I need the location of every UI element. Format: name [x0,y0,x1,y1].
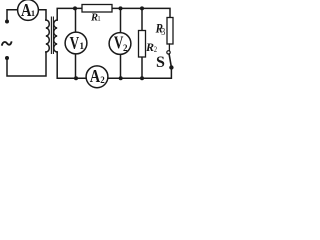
label R2 [145,40,154,54]
voltmeter V2 [109,33,131,55]
wire secondary bottom: coil bottom down, right across, up to switch [57,52,171,78]
node top wire V2 junction [119,6,123,10]
terminal node bottom [5,56,9,60]
terminal node top [5,20,9,24]
ammeter A2 [86,66,108,88]
label A1 [21,0,35,20]
svg-text:2: 2 [123,43,128,53]
node bottom wire V2 junction [119,76,123,80]
wire primary top: source top terminal up, right to A1, to primary coil top [7,10,46,20]
node bottom wire V1 junction [74,76,78,80]
wire secondary top: coil top up, right across to R3 corner, down [57,8,170,20]
node bottom wire R2 junction [140,76,144,80]
transformer core [51,17,53,54]
wire primary bottom: source bottom terminal down, right, up to primary coil bottom [7,52,46,76]
node top wire V1 junction [73,6,77,10]
label V1 [70,34,85,53]
svg-text:3: 3 [161,27,165,38]
transformer secondary coil [54,20,58,52]
svg-text:2: 2 [100,75,105,85]
transformer primary coil [46,20,50,52]
wire V1 branch vertical [75,8,77,78]
svg-text:1: 1 [79,42,84,52]
label R3 [155,20,163,35]
ammeter A1 [18,0,39,20]
voltmeter V1 [65,32,87,54]
wire R2 branch vertical [141,8,143,78]
AC source tilde [2,42,11,45]
switch S blade [169,54,171,66]
switch S pivot circle [167,51,170,54]
svg-text:1: 1 [31,8,35,18]
svg-text:V: V [70,34,80,53]
switch S contact dot [169,65,173,69]
resistor R1 box [82,5,112,13]
switch S lead from R3 [168,44,170,51]
node top wire R2 junction [140,6,144,10]
label R1 [90,13,98,24]
resistor R2 box [139,31,146,58]
resistor R3 box [167,18,173,45]
svg-text:S: S [156,54,165,71]
label V2 [114,34,128,53]
wire V2 branch vertical [120,8,122,78]
svg-text:A: A [90,65,101,86]
svg-text:2: 2 [154,45,158,54]
svg-text:1: 1 [97,15,101,23]
label A2 [90,65,106,86]
svg-text:R: R [145,40,154,54]
